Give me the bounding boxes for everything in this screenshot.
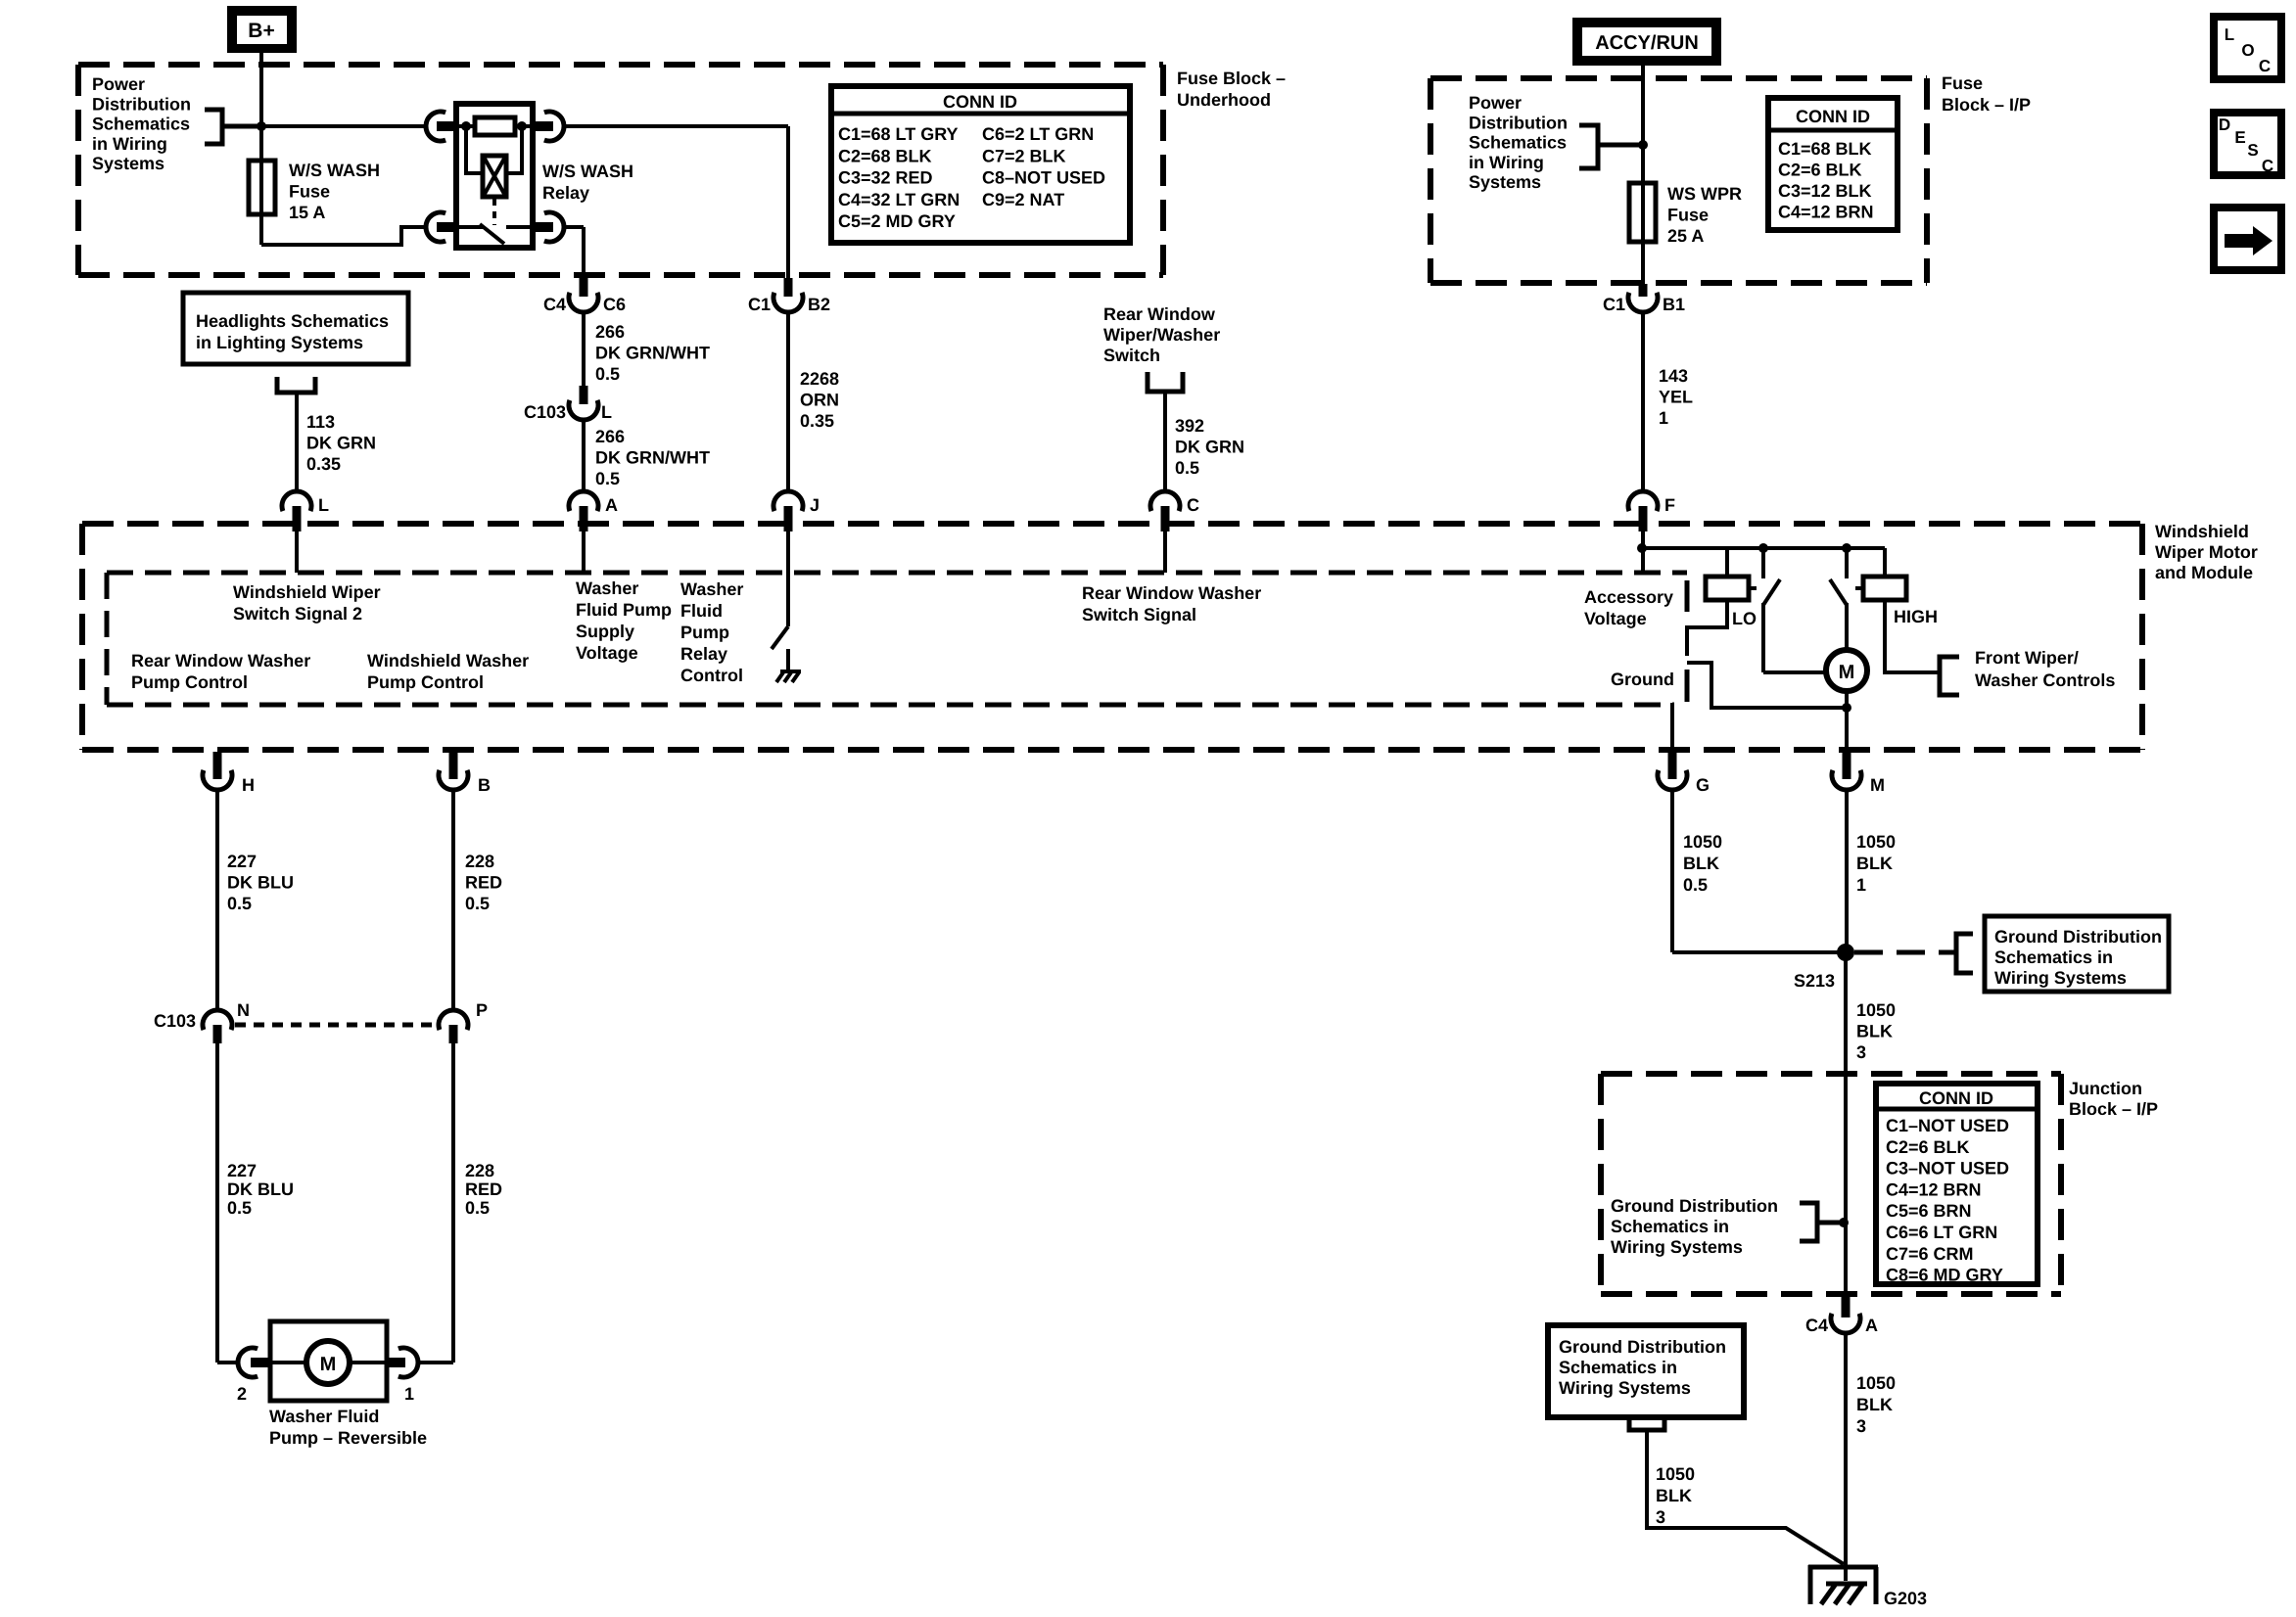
label washer fluid pump relay control (680, 579, 743, 685)
svg-text:Fuse: Fuse (289, 182, 330, 202)
svg-text:C5=6 BRN: C5=6 BRN (1886, 1201, 1972, 1221)
svg-text:2268: 2268 (800, 369, 839, 389)
wire LO coil return (1687, 600, 1727, 656)
svg-text:G203: G203 (1884, 1589, 1927, 1608)
svg-text:Windshield Washer: Windshield Washer (367, 651, 529, 670)
svg-text:0.5: 0.5 (227, 1198, 252, 1218)
svg-text:BLK: BLK (1683, 854, 1719, 873)
svg-text:in Wiring: in Wiring (92, 134, 167, 154)
label washer fluid pump supply voltage (576, 578, 672, 663)
svg-text:Washer Fluid: Washer Fluid (269, 1407, 379, 1426)
svg-text:Ground: Ground (1611, 670, 1674, 689)
svg-text:0.5: 0.5 (595, 469, 620, 488)
conn id table junction block (1876, 1084, 2038, 1285)
svg-text:C: C (2262, 157, 2273, 175)
connector B (439, 752, 491, 795)
wire module ground path (1687, 663, 1847, 708)
wire accessory voltage bus (1642, 531, 1885, 573)
relay coil resistor (475, 117, 515, 135)
svg-text:DK GRN: DK GRN (1175, 438, 1244, 457)
wire relay switch to C6 drop (564, 227, 584, 278)
svg-text:392: 392 (1175, 416, 1204, 436)
svg-text:ACCY/RUN: ACCY/RUN (1595, 32, 1699, 54)
svg-text:25 A: 25 A (1667, 226, 1704, 246)
wire 1050 BLK 1 M to S213 (1845, 790, 1849, 952)
svg-text:Washer: Washer (680, 579, 743, 599)
relay coil junction dots (461, 121, 527, 131)
wire B+ to bus junction (259, 53, 263, 126)
svg-text:0.5: 0.5 (465, 894, 490, 913)
svg-text:C2=6 BLK: C2=6 BLK (1778, 161, 1862, 180)
svg-text:CONN ID: CONN ID (1796, 107, 1870, 126)
svg-text:1050: 1050 (1856, 1373, 1896, 1393)
svg-text:Washer: Washer (576, 578, 638, 598)
svg-text:227: 227 (227, 1161, 257, 1180)
svg-text:C8=6 MD GRY: C8=6 MD GRY (1886, 1266, 2003, 1285)
svg-text:P: P (476, 1000, 488, 1020)
svg-text:Switch Signal: Switch Signal (1082, 605, 1196, 624)
svg-text:Schematics: Schematics (1469, 133, 1567, 153)
svg-text:C4=32 LT GRN: C4=32 LT GRN (838, 190, 960, 209)
svg-text:D: D (2219, 115, 2230, 134)
relay coil HIGH (1855, 548, 1906, 600)
windshield wiper motor and module dashed box (82, 524, 2142, 750)
svg-text:Block – I/P: Block – I/P (1942, 95, 2031, 115)
svg-text:Pump – Reversible: Pump – Reversible (269, 1428, 427, 1448)
svg-text:266: 266 (595, 427, 625, 446)
connector J into module (773, 491, 820, 531)
svg-text:Rear Window Washer: Rear Window Washer (131, 651, 310, 670)
connector C4/C6 (543, 278, 626, 314)
svg-text:ORN: ORN (800, 391, 839, 410)
svg-text:Ground Distribution: Ground Distribution (1994, 927, 2162, 947)
svg-text:C7=6 CRM: C7=6 CRM (1886, 1244, 1974, 1264)
svg-text:CONN ID: CONN ID (943, 92, 1017, 112)
svg-text:Front Wiper/: Front Wiper/ (1975, 648, 2079, 668)
label 266 DK GRN/WHT 0.5 lower (595, 427, 710, 488)
svg-text:DK GRN/WHT: DK GRN/WHT (595, 448, 710, 468)
dashed reference line from S213 (1854, 950, 1955, 955)
svg-text:C103: C103 (154, 1011, 196, 1031)
reference box ground distribution (S213) (1985, 916, 2169, 992)
svg-text:M: M (320, 1354, 337, 1375)
svg-text:1: 1 (1856, 875, 1866, 895)
label 227 DK BLU 0.5 upper (227, 852, 294, 913)
svg-text:Headlights Schematics: Headlights Schematics (196, 311, 389, 331)
label 228 RED 0.5 upper (465, 852, 502, 913)
dashed connector line N-P (235, 1023, 439, 1028)
svg-text:S: S (2247, 141, 2258, 160)
svg-text:L: L (601, 402, 612, 422)
svg-text:Fluid Pump: Fluid Pump (576, 600, 672, 620)
svg-text:3: 3 (1856, 1042, 1866, 1062)
svg-text:Systems: Systems (92, 154, 164, 173)
svg-text:C1=68 LT GRY: C1=68 LT GRY (838, 124, 959, 144)
svg-text:C2=68 BLK: C2=68 BLK (838, 146, 932, 165)
connector F into module (1628, 491, 1675, 531)
svg-text:C1: C1 (748, 295, 771, 314)
connector C4 pin A (1805, 1294, 1878, 1335)
svg-text:Distribution: Distribution (92, 94, 191, 114)
svg-text:Rear Window: Rear Window (1103, 304, 1216, 324)
bracket to power distribution note (205, 110, 261, 144)
wire 1050 BLK 0.5 G to S213 (1672, 790, 1846, 952)
relay pin cup bottom-left (426, 212, 456, 242)
wire 392 DK GRN 0.5 (1163, 392, 1167, 491)
label W/S WASH Fuse 15 A (289, 161, 380, 222)
label 143 YEL 1 (1659, 366, 1693, 428)
label junction block - I/P (2069, 1079, 2158, 1119)
svg-text:Wiper/Washer: Wiper/Washer (1103, 325, 1220, 345)
wire 2268 ORN 0.35 (786, 312, 790, 491)
svg-text:B2: B2 (808, 295, 830, 314)
label 1050 BLK 0.5 (1683, 832, 1722, 895)
label 1050 BLK 3 lower (1856, 1373, 1896, 1436)
svg-text:C103: C103 (524, 402, 566, 422)
module electronics inner dashed box (107, 573, 1687, 705)
note power distribution schematics (underhood) (92, 74, 191, 173)
connector C103 pin N (154, 1000, 250, 1043)
svg-text:F: F (1664, 495, 1675, 515)
label rear window washer switch signal (1082, 583, 1261, 624)
svg-text:A: A (605, 495, 618, 515)
label windshield wiper motor and module (2155, 522, 2258, 582)
svg-text:C9=2 NAT: C9=2 NAT (982, 190, 1064, 209)
svg-text:HIGH: HIGH (1894, 607, 1938, 626)
svg-text:Power: Power (92, 74, 145, 94)
svg-text:C6=2 LT GRN: C6=2 LT GRN (982, 124, 1094, 144)
svg-text:M: M (1870, 775, 1885, 795)
svg-text:1050: 1050 (1856, 1000, 1896, 1020)
svg-text:W/S WASH: W/S WASH (542, 162, 633, 181)
relay actuator dashed link (492, 199, 496, 225)
svg-text:0.5: 0.5 (1175, 458, 1199, 478)
svg-text:E: E (2234, 128, 2245, 147)
svg-text:BLK: BLK (1856, 854, 1893, 873)
connector M (1832, 752, 1885, 795)
svg-text:C1=68 BLK: C1=68 BLK (1778, 139, 1872, 159)
svg-text:143: 143 (1659, 366, 1688, 386)
label 227 DK BLU 0.5 lower (227, 1161, 294, 1218)
label windshield wiper switch signal 2 (233, 582, 381, 624)
label 392 DK GRN 0.5 (1175, 416, 1244, 478)
svg-text:WS WPR: WS WPR (1667, 184, 1742, 204)
svg-text:Fuse Block –: Fuse Block – (1177, 69, 1286, 88)
svg-text:O: O (2241, 41, 2254, 60)
svg-text:Switch: Switch (1103, 346, 1160, 365)
label HIGH (1894, 607, 1938, 626)
svg-text:CONN ID: CONN ID (1919, 1088, 1993, 1108)
svg-text:C1–NOT USED: C1–NOT USED (1886, 1116, 2009, 1135)
svg-text:Schematics in: Schematics in (1611, 1217, 1729, 1236)
connector A into module (569, 491, 618, 531)
junction dots on accessory bus (1637, 543, 1851, 553)
fuse WS WPR 25A (1629, 183, 1656, 242)
svg-text:3: 3 (1856, 1416, 1866, 1436)
svg-text:C4=12 BRN: C4=12 BRN (1778, 203, 1874, 222)
bracket under rear window switch (1148, 372, 1183, 392)
label 1050 BLK 1 (1856, 832, 1896, 895)
svg-text:YEL: YEL (1659, 388, 1693, 407)
svg-text:Pump Control: Pump Control (367, 672, 484, 692)
svg-text:J: J (810, 495, 820, 515)
svg-text:C4=12 BRN: C4=12 BRN (1886, 1179, 1982, 1199)
svg-text:C: C (1187, 495, 1199, 515)
svg-text:C3=32 RED: C3=32 RED (838, 168, 933, 188)
washer pump box (270, 1321, 387, 1401)
wire 227 DK BLU lower (217, 1043, 237, 1363)
svg-text:Switch Signal 2: Switch Signal 2 (233, 604, 362, 624)
fuse block - underhood dashed box (78, 65, 1163, 275)
connector C1/B1 (1603, 284, 1685, 314)
svg-text:Wiring Systems: Wiring Systems (1559, 1378, 1691, 1398)
svg-text:C6: C6 (603, 295, 626, 314)
label accessory voltage (1584, 587, 1673, 628)
svg-text:H: H (242, 775, 255, 795)
connector C103 pin L (524, 386, 612, 422)
svg-text:227: 227 (227, 852, 257, 871)
legend box LOC (2214, 17, 2281, 79)
svg-text:0.5: 0.5 (227, 894, 252, 913)
svg-text:C4: C4 (543, 295, 566, 314)
label 113 DK GRN 0.35 (306, 412, 376, 474)
label windshield washer pump control (367, 651, 529, 692)
svg-text:C4: C4 (1805, 1316, 1828, 1335)
junction node ACCY bus (1638, 140, 1648, 150)
label 1050 BLK 3 upper (1856, 1000, 1896, 1062)
wire relay coil to B2 drop (564, 126, 788, 278)
note ground distribution schematics (junction block) (1611, 1196, 1778, 1257)
legend box DESC (2214, 113, 2281, 175)
svg-text:Control: Control (680, 666, 743, 685)
svg-text:B1: B1 (1663, 295, 1685, 314)
label ground (1611, 670, 1674, 689)
washer pump motor M (271, 1341, 386, 1384)
svg-text:Relay: Relay (680, 644, 727, 664)
svg-text:C3–NOT USED: C3–NOT USED (1886, 1159, 2009, 1178)
connector C103 pin P (439, 1000, 488, 1043)
switch high speed (1830, 548, 1847, 650)
relay pin cup top-left (426, 112, 456, 141)
svg-text:Wiring Systems: Wiring Systems (1994, 968, 2127, 988)
svg-text:S213: S213 (1794, 971, 1835, 991)
svg-text:L: L (2225, 25, 2234, 44)
relay coil LO (1706, 548, 1757, 600)
svg-text:Pump: Pump (680, 623, 729, 642)
svg-text:Rear Window Washer: Rear Window Washer (1082, 583, 1261, 603)
svg-text:0.35: 0.35 (306, 454, 341, 474)
svg-text:228: 228 (465, 852, 494, 871)
svg-text:3: 3 (1656, 1507, 1665, 1527)
wire 113 DK GRN 0.35 (295, 393, 299, 491)
svg-text:in Lighting Systems: in Lighting Systems (196, 333, 363, 352)
svg-text:Voltage: Voltage (576, 643, 638, 663)
power symbol ACCY/RUN (1572, 18, 1721, 66)
svg-text:and Module: and Module (2155, 563, 2253, 582)
junction dot motor ground (1842, 703, 1851, 713)
wire HIGH coil to front wiper controls (1885, 600, 1938, 672)
svg-text:Windshield Wiper: Windshield Wiper (233, 582, 381, 602)
label Fuse Block - I/P (1942, 73, 2031, 115)
bracket front wiper/washer controls (1940, 657, 1959, 695)
pump connector pin 1 (386, 1348, 418, 1404)
reference box ground distribution (G203) (1548, 1325, 1744, 1417)
svg-text:1: 1 (1659, 408, 1668, 428)
wire 228 RED upper (451, 790, 455, 1010)
svg-text:1050: 1050 (1656, 1464, 1695, 1484)
wire 1050 BLK 3 to junction block (1844, 952, 1848, 1294)
relay pin cup bottom-right (533, 212, 564, 242)
svg-text:Wiring Systems: Wiring Systems (1611, 1237, 1743, 1257)
svg-text:Ground Distribution: Ground Distribution (1559, 1337, 1726, 1357)
svg-text:RED: RED (465, 1179, 502, 1199)
label LO (1732, 609, 1757, 628)
svg-text:1: 1 (404, 1384, 414, 1404)
wire A lead-in (582, 531, 586, 573)
wire G drop inside module (1670, 703, 1674, 752)
svg-text:Windshield: Windshield (2155, 522, 2249, 541)
svg-text:Underhood: Underhood (1177, 90, 1271, 110)
svg-text:C8–NOT USED: C8–NOT USED (982, 168, 1105, 188)
svg-text:BLK: BLK (1856, 1395, 1893, 1414)
svg-text:N: N (237, 1000, 250, 1020)
wire L lead-in (295, 531, 299, 573)
svg-text:B: B (478, 775, 491, 795)
fuse block - I/P dashed box (1430, 78, 1927, 283)
bracket to power distribution note (I/P) (1579, 125, 1641, 168)
wire 143 YEL 1 (1641, 312, 1645, 491)
svg-text:DK GRN: DK GRN (306, 434, 376, 453)
conn id table underhood (831, 86, 1130, 243)
svg-text:G: G (1696, 775, 1710, 795)
connector L into module (282, 491, 329, 531)
svg-text:LO: LO (1732, 609, 1757, 628)
conn id table I/P (1768, 98, 1898, 230)
svg-text:1050: 1050 (1856, 832, 1896, 852)
svg-text:0.5: 0.5 (465, 1198, 490, 1218)
wire bus to relay coil pin (261, 124, 426, 128)
svg-text:2: 2 (237, 1384, 247, 1404)
svg-text:Relay: Relay (542, 183, 589, 203)
svg-text:Ground Distribution: Ground Distribution (1611, 1196, 1778, 1216)
svg-text:A: A (1865, 1316, 1878, 1335)
bracket under headlights box (277, 377, 315, 393)
svg-text:DK BLU: DK BLU (227, 1179, 294, 1199)
svg-text:in Wiring: in Wiring (1469, 153, 1544, 172)
chassis ground under relay control switch (776, 649, 801, 682)
svg-text:15 A: 15 A (289, 203, 325, 222)
pump connector pin 2 (237, 1348, 271, 1404)
connector C1/B2 (748, 278, 830, 314)
svg-text:Schematics in: Schematics in (1994, 947, 2113, 967)
legend box arrow (2214, 208, 2281, 270)
svg-text:228: 228 (465, 1161, 494, 1180)
label washer fluid pump - reversible (269, 1407, 427, 1448)
relay W/S WASH box (456, 104, 533, 248)
svg-text:Wiper Motor: Wiper Motor (2155, 542, 2258, 562)
label 2268 ORN 0.35 (800, 369, 839, 431)
connector G (1658, 752, 1710, 795)
label 1050 BLK 3 left (1656, 1464, 1695, 1527)
svg-text:Washer Controls: Washer Controls (1975, 670, 2115, 690)
wire 228 RED lower (419, 1043, 453, 1363)
label rear window washer pump control (131, 651, 310, 692)
svg-text:0.35: 0.35 (800, 411, 834, 431)
svg-text:L: L (318, 495, 329, 515)
wire 266 DK GRN/WHT upper (582, 312, 586, 386)
wire fuse to relay switch pin (261, 227, 426, 245)
svg-text:Block – I/P: Block – I/P (2069, 1099, 2158, 1119)
wire 1050 BLK 3 left branch (1647, 1429, 1844, 1564)
wire 227 DK BLU upper (215, 790, 219, 1010)
svg-text:W/S WASH: W/S WASH (289, 161, 380, 180)
svg-text:B+: B+ (248, 20, 274, 42)
svg-text:C: C (2259, 57, 2271, 75)
svg-text:0.5: 0.5 (595, 364, 620, 384)
svg-text:DK BLU: DK BLU (227, 873, 294, 893)
svg-text:Voltage: Voltage (1584, 609, 1647, 628)
note power distribution schematics (I/P) (1469, 93, 1568, 192)
relay pin cup top-right (533, 112, 564, 141)
svg-text:C5=2 MD GRY: C5=2 MD GRY (838, 211, 956, 231)
power symbol B+ (227, 6, 297, 53)
svg-text:C3=12 BLK: C3=12 BLK (1778, 181, 1872, 201)
bracket to ground distribution note (1956, 934, 1973, 973)
svg-text:Power: Power (1469, 93, 1522, 113)
svg-text:0.5: 0.5 (1683, 875, 1708, 895)
svg-text:Systems: Systems (1469, 172, 1541, 192)
wire C lead-in (1163, 531, 1167, 573)
bracket junction block note (1800, 1203, 1849, 1241)
svg-text:RED: RED (465, 873, 502, 893)
wire 266 DK GRN/WHT lower (582, 420, 586, 491)
svg-text:BLK: BLK (1656, 1486, 1692, 1505)
label WS WPR Fuse 25 A (1667, 184, 1742, 246)
bracket under ground distribution box (1629, 1414, 1664, 1430)
svg-text:Junction: Junction (2069, 1079, 2142, 1098)
splice S213 (1794, 944, 1854, 991)
relay coil wire (456, 124, 533, 128)
svg-text:113: 113 (306, 412, 335, 432)
connector C into module (1150, 491, 1199, 531)
ground G203 (1808, 1565, 1927, 1608)
relay solenoid element (466, 126, 522, 197)
svg-text:Supply: Supply (576, 622, 634, 641)
wire ACCY/RUN feed (1641, 66, 1645, 284)
svg-text:C2=6 BLK: C2=6 BLK (1886, 1137, 1970, 1157)
reference box headlights schematics (183, 293, 408, 364)
junction node B+ bus (257, 121, 266, 131)
fuse W/S WASH 15A (249, 126, 275, 245)
svg-text:Accessory: Accessory (1584, 587, 1673, 607)
connector H (203, 752, 255, 795)
svg-text:C7=2 BLK: C7=2 BLK (982, 146, 1066, 165)
svg-text:Fuse: Fuse (1667, 206, 1709, 225)
svg-text:BLK: BLK (1856, 1022, 1893, 1041)
svg-text:C1: C1 (1603, 295, 1625, 314)
svg-text:Distribution: Distribution (1469, 113, 1568, 132)
relay control switch blade (772, 626, 788, 649)
svg-text:266: 266 (595, 322, 625, 342)
svg-text:DK GRN/WHT: DK GRN/WHT (595, 344, 710, 363)
note rear window wiper/washer switch (1103, 304, 1220, 365)
label 266 DK GRN/WHT 0.5 upper (595, 322, 710, 384)
switch low speed (1763, 548, 1826, 672)
svg-text:Pump Control: Pump Control (131, 672, 248, 692)
label front wiper/washer controls (1975, 648, 2115, 690)
svg-text:Schematics in: Schematics in (1559, 1358, 1677, 1377)
label 228 RED 0.5 lower (465, 1161, 502, 1218)
